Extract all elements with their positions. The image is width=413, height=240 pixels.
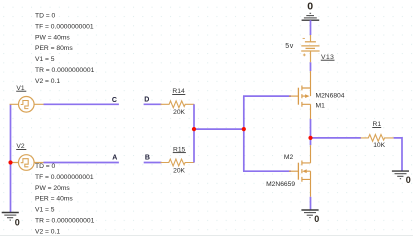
svg-text:TF = 0.0000000001: TF = 0.0000000001	[35, 174, 94, 181]
wire: node to gate rail	[194, 128, 244, 130]
svg-text:TD = 0: TD = 0	[35, 13, 56, 20]
svg-text:M2: M2	[284, 154, 294, 161]
svg-text:10K: 10K	[373, 142, 385, 149]
svg-text:V1 = 5: V1 = 5	[35, 207, 55, 214]
svg-text:0: 0	[15, 218, 20, 228]
svg-text:V2 = 0.1: V2 = 0.1	[35, 78, 60, 85]
transistor M1 (M2N6804 PMOS)	[289, 71, 311, 119]
V2 parameter values (TD TF PW PER V1 TR V2)	[35, 163, 95, 235]
voltage source V2 (VPULSE)	[10, 155, 44, 171]
wire: gate rail vertical and gate leads	[243, 96, 291, 171]
wire: R1 to right ground	[394, 138, 402, 171]
label R14	[172, 88, 185, 95]
junction: output node	[308, 136, 312, 140]
svg-text:D: D	[144, 96, 149, 103]
svg-text:0: 0	[406, 175, 411, 185]
wire: top ground to V13	[310, 20, 312, 35]
svg-text:0: 0	[307, 0, 313, 12]
label V13	[321, 54, 335, 61]
label V1	[16, 85, 26, 92]
svg-text:5v: 5v	[285, 43, 293, 50]
voltage source V1 (VPULSE)	[10, 97, 44, 113]
svg-text:V2 = 0.1: V2 = 0.1	[35, 228, 60, 235]
ground 0 (under M2)	[301, 210, 318, 218]
junction: gate rail node	[242, 127, 246, 131]
wire: R15 up to node	[193, 129, 195, 162]
svg-text:TF = 0.0000000001: TF = 0.0000000001	[35, 23, 94, 30]
svg-text:M2N6659: M2N6659	[266, 181, 295, 188]
wire: output node to R1	[311, 137, 362, 139]
svg-text:TR = 0.0000000001: TR = 0.0000000001	[35, 67, 95, 74]
svg-text:0: 0	[314, 214, 319, 224]
svg-text:TR = 0.0000000001: TR = 0.0000000001	[35, 217, 95, 224]
label V2	[16, 143, 26, 150]
resistor R1	[361, 135, 394, 142]
transistor M2 (M2N6659 NMOS)	[289, 145, 311, 197]
svg-text:20K: 20K	[173, 167, 185, 174]
svg-text:PW = 40ms: PW = 40ms	[35, 34, 70, 41]
svg-text:TD = 0: TD = 0	[35, 163, 56, 170]
junction: resistor node	[192, 127, 196, 131]
resistor R15	[161, 159, 195, 166]
svg-text:20K: 20K	[173, 109, 185, 116]
wire B (net B into R15)	[144, 162, 162, 164]
label R1	[372, 121, 381, 128]
resistor R14	[161, 101, 195, 108]
ground 0 (right, under R1)	[392, 171, 409, 179]
svg-text:B: B	[145, 154, 150, 161]
wire C (from V1 to net C)	[44, 103, 119, 105]
wire: M1 source to output node	[310, 119, 312, 138]
wire: left rail from V1 corner down to bottom-left ground	[10, 104, 12, 212]
wire D (net D into R14)	[144, 103, 162, 105]
ground 0 (top, flipped)	[302, 13, 320, 20]
wire: output node down to M2 drain	[310, 138, 312, 145]
ground 0 (bottom left)	[2, 213, 19, 221]
svg-text:PER = 40ms: PER = 40ms	[35, 196, 73, 203]
svg-text:PW = 20ms: PW = 20ms	[35, 185, 70, 192]
battery V13	[301, 35, 319, 62]
svg-text:M2N6804: M2N6804	[316, 93, 345, 100]
V1 parameter values (TD TF PW PER V1 TR V2)	[35, 13, 95, 85]
svg-text:PER = 80ms: PER = 80ms	[35, 45, 73, 52]
junction: V2 tap on left rail	[8, 160, 12, 164]
svg-text:V1 = 5: V1 = 5	[35, 56, 55, 63]
wire A (from V2 to net A)	[44, 162, 119, 164]
wire: V13 to M1 drain	[310, 62, 312, 71]
svg-text:M1: M1	[316, 102, 326, 109]
svg-text:A: A	[112, 154, 117, 161]
wire: R14 down to node	[193, 104, 195, 129]
wire: M2 source to ground	[310, 197, 312, 210]
label R15	[173, 146, 186, 153]
svg-text:C: C	[112, 97, 117, 104]
